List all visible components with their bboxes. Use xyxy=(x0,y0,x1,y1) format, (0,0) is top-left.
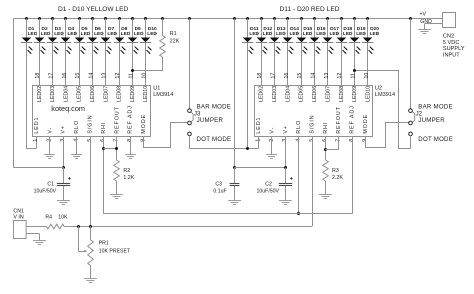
LED D10 xyxy=(140,26,158,54)
svg-text:LED1: LED1 xyxy=(34,117,40,134)
LED D20 xyxy=(362,26,380,54)
LED D4 xyxy=(60,26,78,54)
svg-text:D9: D9 xyxy=(135,26,141,32)
svg-text:17: 17 xyxy=(49,73,55,79)
pin label LED04 U2 xyxy=(285,86,291,102)
svg-text:18: 18 xyxy=(35,73,41,79)
pin label LED02 U1 xyxy=(37,86,43,102)
ground CN2 xyxy=(418,30,431,34)
wire U1 pin9 MODE to J3 xyxy=(144,123,188,148)
pin number 16 U2 xyxy=(284,73,290,79)
svg-text:13: 13 xyxy=(102,73,108,79)
wire D20 cathode to U2 pin 10 xyxy=(367,43,369,85)
svg-text:REFOUT: REFOUT xyxy=(114,106,120,133)
svg-text:D10: D10 xyxy=(148,26,157,32)
LED D18 xyxy=(336,26,353,54)
pin number 12 U2 xyxy=(337,73,343,79)
wire D3 cathode to U1 pin 17 xyxy=(52,43,54,85)
svg-text:V+: V+ xyxy=(283,125,289,134)
pin number 15 U2 xyxy=(297,73,303,79)
wire D19 cathode to U2 pin 11 xyxy=(354,43,356,85)
LED D15 xyxy=(296,26,313,54)
junction U1 pin6 REFOUT xyxy=(102,147,105,150)
wire U1 pin8 to ground xyxy=(130,136,132,155)
label U2 xyxy=(375,86,382,92)
wire bus left drop to V+ rail of U1 xyxy=(13,19,15,168)
junction bus D11 xyxy=(246,17,249,20)
junction bus D9 xyxy=(131,17,134,20)
junction bus D15 xyxy=(300,17,303,20)
LED D1 xyxy=(21,26,38,54)
wire D9 anode xyxy=(132,19,134,38)
ground PR1 xyxy=(84,279,97,283)
pin number 14 U1 xyxy=(88,73,94,79)
wire D16 anode xyxy=(314,19,316,38)
svg-text:LED04: LED04 xyxy=(63,86,69,102)
junction J2 dot wire on D19 column xyxy=(353,69,356,72)
wire U2 pin6 RHI xyxy=(325,136,327,160)
wire U2 pin4 RLO drop xyxy=(298,136,300,213)
capacitor C2 10uF/50V xyxy=(257,168,293,201)
pin label LED06 U1 xyxy=(90,86,96,102)
ground C2 xyxy=(279,201,292,205)
svg-text:JUMPER: JUMPER xyxy=(197,117,224,124)
wire D15 anode xyxy=(301,19,303,38)
svg-text:REFOUT: REFOUT xyxy=(336,106,342,133)
svg-text:C3: C3 xyxy=(215,181,222,187)
LED D5 xyxy=(74,26,91,54)
junction U2 pin6 xyxy=(324,148,327,151)
wire D15 cathode to U2 pin 15 xyxy=(301,43,303,85)
pin number 3 U2 xyxy=(282,139,288,142)
wire U1 pin6 to pin7 xyxy=(103,148,116,150)
svg-text:15: 15 xyxy=(297,73,303,79)
wire J2 dot mode to U2 pin11 xyxy=(355,71,411,149)
label J2 JUMPER xyxy=(418,117,445,124)
svg-text:D20: D20 xyxy=(370,26,379,32)
wire D10 anode xyxy=(145,19,147,38)
svg-text:D14: D14 xyxy=(290,26,299,32)
svg-text:LED10: LED10 xyxy=(365,86,371,102)
capacitor C1 10uF/50V xyxy=(34,168,71,201)
svg-text:D12: D12 xyxy=(263,26,272,32)
pin number 9 U2 xyxy=(362,139,368,142)
svg-text:R2: R2 xyxy=(123,168,130,174)
svg-text:LED: LED xyxy=(107,31,117,37)
svg-text:RLO: RLO xyxy=(74,120,80,134)
junction R1 on D9 column xyxy=(131,69,134,72)
pin number 7 U1 xyxy=(114,139,120,142)
svg-text:18: 18 xyxy=(257,73,263,79)
pin label LED03 U1 xyxy=(50,86,56,102)
wire D6 anode xyxy=(92,19,94,38)
wire D1 cathode to U1 pin1 loop xyxy=(26,43,37,149)
op-amp U1 LM3914 body xyxy=(33,86,151,137)
junction bus D7 xyxy=(104,17,107,20)
wire R1 to U1 pin 11 xyxy=(132,70,163,72)
pin number 11 U2 xyxy=(351,73,357,79)
pin number 8 U2 xyxy=(349,139,355,142)
wire D18 anode xyxy=(341,19,343,38)
pin number 7 U2 xyxy=(336,139,342,142)
svg-text:LED: LED xyxy=(330,31,340,37)
wire U1 pin5 signal drop xyxy=(90,136,92,226)
wire D20 anode xyxy=(367,19,369,38)
svg-text:C1: C1 xyxy=(47,181,54,187)
svg-text:LED: LED xyxy=(290,31,300,37)
LED D11 xyxy=(242,26,260,54)
wire D7 cathode to U1 pin 13 xyxy=(105,43,107,85)
pin label RLO U2 xyxy=(296,120,302,134)
connector J3 dot pad xyxy=(188,132,192,136)
pin label LED1 U2 xyxy=(256,117,262,134)
svg-text:14: 14 xyxy=(88,73,94,79)
pin number 12 U1 xyxy=(115,73,121,79)
svg-text:1: 1 xyxy=(33,139,39,142)
label CN2 SUPPLY xyxy=(443,46,465,52)
junction bus D4 xyxy=(64,17,67,20)
svg-text:LED03: LED03 xyxy=(272,86,278,102)
junction U2 rail C2 xyxy=(284,166,287,169)
svg-text:V+: V+ xyxy=(61,125,67,134)
wire V+ rail U2 xyxy=(235,167,286,169)
svg-text:JUMPER: JUMPER xyxy=(418,117,445,124)
wire U1 pin2 to ground xyxy=(49,136,51,155)
svg-text:D13: D13 xyxy=(277,26,286,32)
junction signal PR1 wiper xyxy=(77,225,80,228)
svg-text:LED07: LED07 xyxy=(103,86,109,102)
svg-text:LED: LED xyxy=(370,31,380,37)
wire J3 dot mode to U2 pin1 xyxy=(189,136,248,149)
wire D19 anode xyxy=(354,19,356,38)
junction bus D14 xyxy=(286,17,289,20)
preset PR1 10K body xyxy=(88,226,131,279)
wire D17 anode xyxy=(327,19,329,38)
pin number 10 U2 xyxy=(364,73,370,79)
pin number 13 U2 xyxy=(324,73,330,79)
pin number 1 U1 xyxy=(33,139,39,142)
wire D11 anode xyxy=(247,19,249,38)
wire U2 pin7 to pin6 xyxy=(325,136,338,149)
svg-text:11: 11 xyxy=(128,73,134,79)
svg-text:10uF/50V: 10uF/50V xyxy=(34,188,57,194)
svg-text:RHI: RHI xyxy=(323,122,329,134)
pin label LED10 U1 xyxy=(143,86,149,102)
wire D2 anode xyxy=(39,19,41,38)
wire U1 pin4 to ground xyxy=(76,136,78,155)
junction U1 pin7 xyxy=(115,147,118,150)
jumper J2 shunt xyxy=(413,112,415,122)
svg-text:5: 5 xyxy=(87,139,93,142)
junction bus D2 xyxy=(38,17,41,20)
pin number 18 U1 xyxy=(35,73,41,79)
pin number 17 U1 xyxy=(49,73,55,79)
wire U1 pin3 V+ xyxy=(63,136,65,167)
label J3 JUMPER xyxy=(197,117,224,124)
pin label LED02 U2 xyxy=(259,86,265,102)
svg-text:C2: C2 xyxy=(265,181,272,187)
wire +V top bus xyxy=(14,18,443,20)
svg-text:LM3914: LM3914 xyxy=(375,92,395,98)
svg-text:REF ADJ: REF ADJ xyxy=(128,105,134,133)
svg-text:10: 10 xyxy=(364,73,370,79)
junction bus D5 xyxy=(78,17,81,20)
connector J2 center pad xyxy=(409,121,413,125)
wire D12 cathode to U2 pin 18 xyxy=(261,43,263,85)
pin label V+ U1 xyxy=(61,125,67,134)
junction bus D16 xyxy=(313,17,316,20)
op-amp U2 LM3914 body xyxy=(255,86,373,137)
pin number 18 U2 xyxy=(257,73,263,79)
pin number 10 U1 xyxy=(142,73,148,79)
wire D5 cathode to U1 pin 15 xyxy=(79,43,81,85)
LED D12 xyxy=(256,26,273,54)
pin number 4 U2 xyxy=(296,139,302,142)
wire bus drop to U2 V+ rail xyxy=(234,19,236,168)
svg-text:2.2K: 2.2K xyxy=(332,175,343,181)
svg-text:0.1uF: 0.1uF xyxy=(213,188,226,194)
label CN2 INPUT xyxy=(443,53,460,59)
resistor R1 22K xyxy=(160,19,180,71)
ground U1 pin4 xyxy=(71,155,82,159)
LED D9 xyxy=(127,26,144,54)
jumper J3 shunt xyxy=(191,112,193,122)
svg-text:D4: D4 xyxy=(68,26,74,32)
wire D18 cathode to U2 pin 12 xyxy=(341,43,343,85)
svg-text:11: 11 xyxy=(351,73,357,79)
LED D7 xyxy=(100,26,118,54)
svg-text:BAR MODE: BAR MODE xyxy=(197,103,232,110)
svg-text:LED04: LED04 xyxy=(285,86,291,102)
svg-text:D11 - D20 RED LED: D11 - D20 RED LED xyxy=(280,6,340,13)
junction signal U1 pin5 / PR1 xyxy=(89,225,92,228)
junction RLO link xyxy=(297,212,300,215)
LED D13 xyxy=(269,26,286,54)
svg-text:LED09: LED09 xyxy=(130,86,136,102)
ground CN1 xyxy=(33,241,46,245)
wire U2 pin3 V+ xyxy=(285,136,287,167)
wire signal line xyxy=(26,226,312,228)
wire CN1 ground pin xyxy=(26,234,39,241)
svg-text:16: 16 xyxy=(284,73,290,79)
svg-text:S/GIN: S/GIN xyxy=(88,114,94,133)
svg-text:S/GIN: S/GIN xyxy=(310,114,316,133)
pin label LED05 U2 xyxy=(299,86,305,102)
svg-text:SUPPLY: SUPPLY xyxy=(443,46,465,52)
svg-text:D16: D16 xyxy=(317,26,326,32)
pin number 13 U1 xyxy=(102,73,108,79)
junction bus D6 xyxy=(91,17,94,20)
svg-text:D7: D7 xyxy=(108,26,114,32)
pin label MODE U1 xyxy=(141,114,147,134)
wire U1 pin6 RHI drop xyxy=(103,136,105,213)
svg-text:22K: 22K xyxy=(170,39,180,45)
ground C3 xyxy=(228,201,241,205)
label J3 DOT MODE xyxy=(197,136,232,143)
pin label V+ U2 xyxy=(283,125,289,134)
junction bus D10 xyxy=(144,17,147,20)
pin number 8 U1 xyxy=(127,139,133,142)
svg-text:INPUT: INPUT xyxy=(443,53,460,59)
svg-text:LM3914: LM3914 xyxy=(153,92,173,98)
wire D5 anode xyxy=(79,19,81,38)
junction bus D13 xyxy=(273,17,276,20)
pin label LED06 U2 xyxy=(312,86,318,102)
svg-text:5 VDC: 5 VDC xyxy=(443,40,459,46)
wire D8 cathode to U1 pin 12 xyxy=(119,43,121,85)
wire U2 pin9 MODE to J2 xyxy=(366,123,410,148)
svg-text:D19: D19 xyxy=(357,26,366,32)
pin label S/GIN U1 xyxy=(88,114,94,133)
svg-text:CN2: CN2 xyxy=(443,34,454,40)
wire CN2 ground pin xyxy=(425,24,443,30)
svg-text:10K: 10K xyxy=(58,214,68,220)
svg-text:U2: U2 xyxy=(375,86,382,92)
jumper J2 bar wire xyxy=(410,19,412,109)
pin label LED03 U2 xyxy=(272,86,278,102)
label J2 DOT MODE xyxy=(418,136,453,143)
pin number 9 U1 xyxy=(140,139,146,142)
junction U2 pin1 loop xyxy=(246,147,249,150)
ground U1 pin8 xyxy=(125,155,136,159)
LED D8 xyxy=(114,26,131,54)
LED D3 xyxy=(47,26,65,54)
connector J3 bar pad xyxy=(188,109,192,113)
pin number 14 U2 xyxy=(310,73,316,79)
pin number 11 U1 xyxy=(128,73,134,79)
svg-text:RLO: RLO xyxy=(296,120,302,134)
pin label V- U2 xyxy=(270,127,276,134)
svg-text:D15: D15 xyxy=(303,26,312,32)
wire D4 anode xyxy=(65,19,67,38)
svg-text:LED: LED xyxy=(147,31,157,37)
svg-text:12: 12 xyxy=(115,73,121,79)
svg-text:D1 - D10 YELLOW LED: D1 - D10 YELLOW LED xyxy=(58,6,128,13)
svg-text:12: 12 xyxy=(337,73,343,79)
svg-text:R4: R4 xyxy=(45,214,52,220)
wire D14 cathode to U2 pin 16 xyxy=(287,43,289,85)
svg-text:LED08: LED08 xyxy=(117,86,123,102)
label U1 xyxy=(153,86,160,92)
pin label LED04 U1 xyxy=(63,86,69,102)
pin label REFOUT U1 xyxy=(114,106,120,133)
svg-text:MODE: MODE xyxy=(141,114,147,134)
pin label LED07 U1 xyxy=(103,86,109,102)
jumper J3 bar wire xyxy=(189,19,191,109)
wire D17 cathode to U2 pin 13 xyxy=(327,43,329,85)
label J2 xyxy=(416,111,423,118)
svg-text:10: 10 xyxy=(142,73,148,79)
pin label LED09 U1 xyxy=(130,86,136,102)
junction bus D8 xyxy=(118,17,121,20)
capacitor C3 0.1uF xyxy=(213,168,239,201)
svg-text:LED06: LED06 xyxy=(90,86,96,102)
LED D2 xyxy=(34,26,51,54)
wire D1 anode xyxy=(26,19,28,38)
svg-text:LED08: LED08 xyxy=(339,86,345,102)
svg-text:10K PRESET: 10K PRESET xyxy=(99,248,131,254)
svg-text:1: 1 xyxy=(255,139,261,142)
wire D13 cathode to U2 pin 17 xyxy=(274,43,276,85)
wire D11 cathode to U2 pin1 loop xyxy=(248,43,259,149)
svg-text:LED1: LED1 xyxy=(256,117,262,134)
svg-text:V-: V- xyxy=(270,127,276,134)
pin number 5 U2 xyxy=(309,139,315,142)
pin number 6 U1 xyxy=(100,139,106,142)
pin label LED10 U2 xyxy=(365,86,371,102)
svg-text:D18: D18 xyxy=(343,26,352,32)
svg-text:D8: D8 xyxy=(121,26,127,32)
svg-text:D11: D11 xyxy=(250,26,259,32)
LED D17 xyxy=(322,26,340,54)
wire D4 cathode to U1 pin 16 xyxy=(65,43,67,85)
resistor R4 10K xyxy=(45,214,68,229)
label CN2 xyxy=(443,34,454,40)
svg-text:5: 5 xyxy=(309,139,315,142)
label J3 BAR MODE xyxy=(197,103,232,110)
wire D13 anode xyxy=(274,19,276,38)
pin label LED1 U1 xyxy=(34,117,40,134)
svg-text:LED05: LED05 xyxy=(77,86,83,102)
svg-text:16: 16 xyxy=(62,73,68,79)
svg-text:PR1: PR1 xyxy=(99,240,109,246)
pin number 6 U2 xyxy=(322,139,328,142)
junction bus D17 xyxy=(326,17,329,20)
wire U1 pin7 REFOUT xyxy=(116,136,118,160)
wire D3 anode xyxy=(52,19,54,38)
pin label MODE U2 xyxy=(363,114,369,134)
junction bus D3 xyxy=(51,17,54,20)
svg-text:+V: +V xyxy=(420,11,427,17)
wire D9 cathode to U1 pin 11 xyxy=(132,43,134,85)
wire D12 anode xyxy=(261,19,263,38)
svg-text:15: 15 xyxy=(75,73,81,79)
pin label V- U1 xyxy=(47,127,53,134)
junction bus J3 bar xyxy=(188,17,191,20)
title D1 - D10 YELLOW LED xyxy=(58,6,128,13)
pin label LED07 U2 xyxy=(325,86,331,102)
label U1 value LM3914 xyxy=(153,92,173,98)
svg-text:D5: D5 xyxy=(81,26,87,32)
pin label LED05 U1 xyxy=(77,86,83,102)
svg-text:R1: R1 xyxy=(170,31,177,37)
svg-text:LED: LED xyxy=(68,31,78,37)
junction bus J2 bar xyxy=(409,17,412,20)
svg-text:V-: V- xyxy=(47,127,53,134)
pin number 3 U1 xyxy=(60,139,66,142)
pin number 2 U1 xyxy=(47,139,53,142)
LED D19 xyxy=(349,26,367,54)
pin number 16 U1 xyxy=(62,73,68,79)
ground U1 pin2 xyxy=(44,155,55,159)
svg-text:LED07: LED07 xyxy=(325,86,331,102)
pin label RLO U1 xyxy=(74,120,80,134)
svg-text:LED03: LED03 xyxy=(50,86,56,102)
pin label REF ADJ U2 xyxy=(350,105,356,133)
pin number 17 U2 xyxy=(270,73,276,79)
label koteq.com xyxy=(51,104,85,113)
svg-text:R3: R3 xyxy=(332,168,339,174)
label J3 xyxy=(194,111,201,118)
resistor R3 2.2K xyxy=(323,160,344,194)
label CN2 5 VDC xyxy=(443,40,459,46)
ground U2 pin2 xyxy=(266,155,277,159)
wire D16 cathode to U2 pin 14 xyxy=(314,43,316,85)
pin number 15 U1 xyxy=(75,73,81,79)
junction bus R1 xyxy=(161,17,164,20)
svg-text:LED05: LED05 xyxy=(299,86,305,102)
svg-text:8: 8 xyxy=(349,139,355,142)
